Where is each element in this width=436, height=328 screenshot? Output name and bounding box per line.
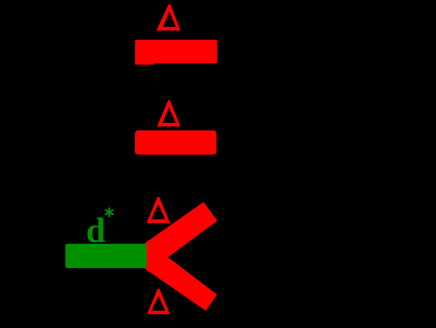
delta label 3 (upper fork arm) [147, 197, 170, 223]
red Y fork (two delta arms) [144, 202, 217, 311]
level bar 1 bottom-left lip [135, 62, 154, 65]
svg-text:d: d [86, 211, 106, 250]
delta label 2 (above second bar) [157, 100, 181, 126]
delta label 4 (lower fork arm) [147, 289, 170, 315]
label asterisk (superscript star) [106, 208, 113, 216]
delta label 1 (above top bar) [157, 4, 181, 30]
level bar 2 (second red energy level) [135, 130, 217, 154]
level bar 1 (top red energy level) [135, 40, 217, 63]
green d* bar [65, 244, 147, 268]
